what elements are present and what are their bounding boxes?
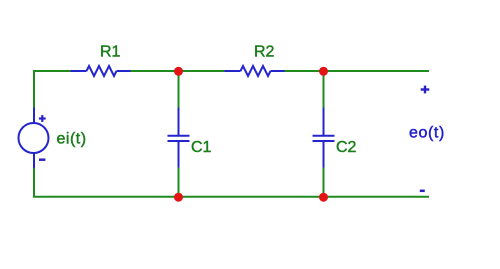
voltage source ei(t) (19, 108, 49, 169)
output plus sign (421, 86, 430, 94)
wire C1 bottom to bottom rail (178, 168, 180, 198)
output minus sign (420, 190, 425, 193)
wire node B stub to C2 (323, 71, 325, 108)
svg-text:R2: R2 (254, 44, 275, 61)
node A junction dot top (174, 67, 183, 76)
source minus sign (39, 158, 45, 161)
svg-text:R1: R1 (100, 44, 121, 61)
resistor R1 (71, 66, 131, 76)
svg-text:C1: C1 (191, 139, 212, 156)
node B junction dot bottom (319, 193, 328, 202)
source plus sign (39, 115, 46, 122)
wire source bottom to bottom rail (34, 168, 429, 197)
svg-text:ei(t): ei(t) (57, 131, 87, 148)
wire top rail R1 to R2 (131, 70, 225, 72)
capacitor C2 (313, 108, 335, 168)
resistor R2 (225, 66, 285, 76)
wire top rail R2 to right end (285, 70, 430, 72)
svg-text:eo(t): eo(t) (409, 125, 445, 142)
wire C2 bottom to bottom rail (323, 168, 325, 198)
node A junction dot bottom (174, 193, 183, 202)
capacitor C1 (168, 108, 190, 168)
wire top-left from source up and right to R1 (34, 71, 71, 108)
svg-text:C2: C2 (336, 139, 357, 156)
node B junction dot top (319, 67, 328, 76)
wire node A stub to C1 (178, 71, 180, 108)
